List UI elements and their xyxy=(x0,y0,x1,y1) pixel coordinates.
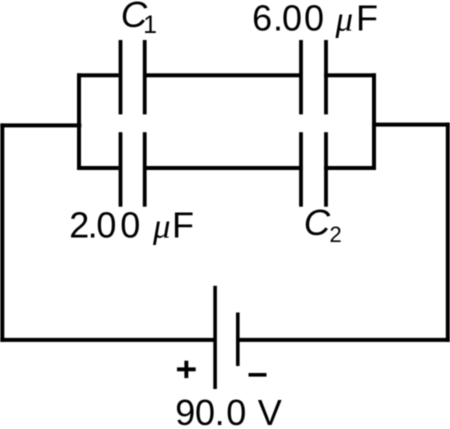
svg-text:μ: μ xyxy=(335,0,354,39)
svg-text:9: 9 xyxy=(175,392,195,429)
svg-text:μ: μ xyxy=(152,207,171,246)
svg-text:0: 0 xyxy=(282,0,302,39)
svg-text:0: 0 xyxy=(96,205,116,246)
svg-text:2: 2 xyxy=(330,222,342,247)
svg-text:2: 2 xyxy=(69,205,89,246)
svg-text:6: 6 xyxy=(252,0,272,39)
svg-text:C: C xyxy=(304,202,331,243)
svg-text:F: F xyxy=(356,0,378,39)
svg-text:0: 0 xyxy=(226,392,246,429)
svg-text:0: 0 xyxy=(120,205,140,246)
svg-text:0: 0 xyxy=(304,0,324,39)
svg-text:.: . xyxy=(215,392,225,429)
svg-text:1: 1 xyxy=(143,11,157,39)
svg-text:0: 0 xyxy=(195,392,215,429)
svg-text:F: F xyxy=(172,205,194,246)
svg-text:V: V xyxy=(258,392,282,429)
